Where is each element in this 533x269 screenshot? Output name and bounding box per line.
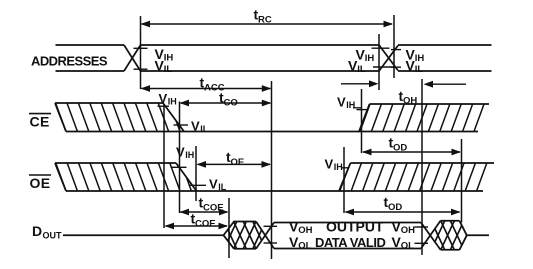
svg-text:IH: IH	[164, 53, 174, 64]
D_OUT high-Z line	[63, 234, 224, 236]
dimension t_OH left arrow	[341, 83, 370, 85]
svg-text:IH: IH	[334, 162, 343, 172]
svg-text:V: V	[191, 119, 200, 134]
CE right hatch top edge	[370, 103, 490, 105]
dimension t_OD lower arrow	[346, 211, 460, 213]
V_OH tick right	[415, 226, 429, 228]
svg-text:IL: IL	[415, 64, 424, 75]
D_OUT turn-off hexagon outline	[441, 220, 460, 222]
valid data bottom rail	[274, 248, 421, 250]
CE V_IH tick at falling edge	[158, 105, 170, 107]
OE right hatch top edge	[351, 162, 495, 164]
reference line F - address change 2 / t_RC end	[393, 15, 395, 78]
X2 left V_IL tick	[373, 66, 395, 68]
svg-text:OUTPUT: OUTPUT	[326, 219, 384, 235]
svg-text:V: V	[209, 177, 218, 192]
svg-text:DATA VALID: DATA VALID	[315, 235, 385, 250]
svg-text:OH: OH	[298, 225, 312, 236]
svg-text:OD: OD	[388, 202, 402, 213]
svg-text:IL: IL	[357, 64, 366, 75]
svg-text:OE: OE	[30, 175, 51, 191]
dimension t_COE upper arrow	[181, 211, 228, 213]
svg-text:V: V	[337, 95, 346, 110]
dimension t_RC arrow	[142, 23, 393, 25]
svg-text:RC: RC	[258, 14, 272, 25]
svg-text:IH: IH	[185, 150, 194, 160]
svg-text:OE: OE	[231, 157, 245, 168]
D_OUT transition X to turn-off	[421, 223, 441, 250]
valid data top rail	[274, 222, 421, 224]
OE left hatch leading edge	[55, 163, 66, 191]
reference line D - D_OUT enable	[228, 198, 230, 258]
svg-text:OL: OL	[298, 241, 311, 252]
reference line I - t_OD end	[461, 139, 463, 223]
OE V_IL tick at falling edge	[189, 184, 207, 186]
svg-text:IH: IH	[415, 53, 425, 64]
svg-text:V: V	[176, 145, 185, 160]
svg-text:CO: CO	[224, 97, 238, 108]
D_OUT final high-Z line	[467, 234, 489, 236]
svg-text:OH: OH	[401, 225, 415, 236]
address bus low rail	[56, 70, 125, 72]
svg-text:IH: IH	[168, 97, 177, 107]
svg-text:ADDRESSES: ADDRESSES	[31, 54, 108, 69]
X2 right V_IL tick	[391, 66, 401, 68]
OE rising V_IH tick	[341, 167, 349, 169]
V_OL tick left	[264, 242, 278, 244]
svg-text:V: V	[325, 157, 334, 172]
D_OUT turn-on hexagon outline	[224, 222, 257, 249]
OE left hatch top edge	[55, 162, 176, 164]
address transition X2 crossover	[379, 45, 398, 71]
X2 right V_IH tick	[391, 49, 401, 51]
svg-text:COE: COE	[203, 202, 224, 213]
dimension t_OD upper arrow	[363, 151, 460, 153]
CE rising V_IH tick	[353, 107, 362, 109]
reference line E - outputs valid	[271, 81, 273, 259]
dimension t_ACC arrow	[142, 88, 271, 90]
svg-text:V: V	[159, 91, 168, 106]
dimension t_CO arrow	[181, 102, 271, 104]
reference line J - t_OH end / data end	[421, 79, 423, 255]
signal label OE with overline	[29, 174, 51, 176]
OE V_IH tick at falling edge	[171, 166, 187, 168]
svg-text:OUT: OUT	[43, 231, 63, 241]
D_OUT transition X to valid data	[256, 222, 274, 249]
reference line G - OE rise	[343, 147, 345, 213]
svg-text:IH: IH	[365, 53, 375, 64]
dimension t_OH right arrow	[432, 83, 466, 85]
CE V_IL tick at falling edge	[174, 124, 189, 126]
address transition X1 crossover	[124, 45, 141, 71]
reference line K from OE edge	[195, 146, 197, 201]
reference line A - address change 1	[140, 16, 142, 89]
reference line H - CE rise	[361, 89, 363, 153]
CE left hatch top edge	[55, 102, 163, 104]
CE low line	[66, 131, 478, 133]
svg-text:OD: OD	[393, 142, 407, 153]
V_OH tick left	[264, 225, 278, 227]
address bus high rail	[56, 44, 125, 46]
reference line B from CE V_IH	[163, 105, 165, 228]
CE left hatch leading edge	[55, 103, 66, 132]
X2 left V_IH tick	[372, 47, 390, 49]
OE falling edge	[176, 163, 197, 191]
signal label CE with overline	[29, 113, 51, 115]
svg-text:OL: OL	[401, 241, 414, 252]
dimension t_COE lower arrow	[166, 225, 228, 227]
dimension t_OE arrow	[198, 163, 271, 165]
svg-text:IL: IL	[218, 182, 227, 192]
OE rising edge	[339, 163, 351, 191]
CE rising edge	[359, 104, 370, 132]
svg-text:IL: IL	[164, 64, 173, 75]
svg-text:CE: CE	[30, 114, 50, 130]
svg-text:COE: COE	[195, 218, 216, 229]
svg-text:IL: IL	[200, 124, 209, 134]
X1 V_IL tick	[134, 68, 148, 70]
svg-text:IH: IH	[346, 100, 355, 110]
V_OL tick right	[415, 242, 429, 244]
address transition X2 boundary line	[378, 34, 380, 90]
svg-text:D: D	[32, 223, 42, 239]
X1 V_IH tick	[134, 47, 148, 49]
reference line C from CE V_IL	[179, 102, 181, 214]
CE falling edge	[163, 103, 184, 132]
OE low line	[66, 190, 483, 192]
